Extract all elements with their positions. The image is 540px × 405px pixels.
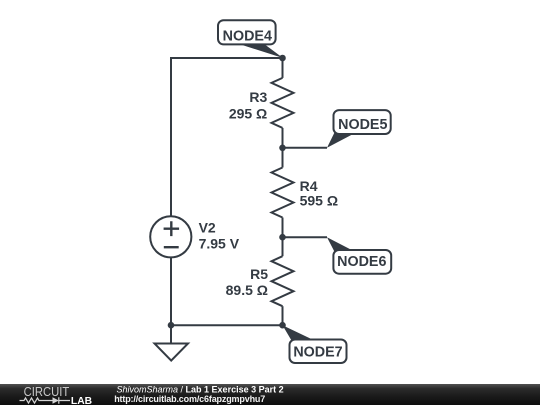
svg-text:NODE7: NODE7: [293, 344, 342, 360]
node NODE5 callout tail: [327, 133, 356, 148]
svg-text:295 Ω: 295 Ω: [229, 105, 267, 121]
voltage source V2 circle: [150, 216, 191, 257]
node NODE7 callout tail: [283, 325, 315, 340]
svg-text:595 Ω: 595 Ω: [300, 193, 338, 209]
wire node5 to R4: [282, 148, 284, 168]
wire R4 to node6: [282, 218, 284, 238]
junction node5 dot: [279, 145, 286, 152]
junction node7 dot: [279, 322, 286, 329]
ground symbol: [155, 344, 189, 361]
logo diode: [53, 397, 59, 404]
wire R3 to node5: [282, 128, 284, 148]
wire R5 to bottom: [282, 306, 284, 325]
svg-text:LAB: LAB: [71, 396, 92, 405]
junction node4 dot: [279, 55, 286, 62]
wire left vertical upper: [170, 57, 172, 216]
node NODE6 callout box: [333, 250, 391, 274]
wire bottom horizontal: [171, 324, 283, 326]
footer bar: [0, 384, 540, 405]
svg-text:NODE4: NODE4: [223, 29, 272, 45]
node NODE7 callout box: [290, 340, 347, 364]
wire node5 stub: [283, 147, 328, 149]
svg-text:http://circuitlab.com/c6fapzgm: http://circuitlab.com/c6fapzgmpvhu7: [114, 394, 265, 404]
wire node6 to R5: [282, 237, 284, 256]
wire left vertical lower: [170, 257, 172, 325]
wire right top segment: [282, 58, 284, 78]
logo squiggle wire: [20, 398, 50, 403]
svg-text:89.5 Ω: 89.5 Ω: [226, 282, 268, 298]
node NODE4 callout box: [218, 20, 276, 44]
wire top horizontal: [171, 57, 283, 59]
svg-text:R5: R5: [250, 266, 268, 282]
svg-text:R4: R4: [300, 178, 318, 194]
svg-text:NODE6: NODE6: [337, 254, 386, 270]
voltage source minus sign: [164, 246, 179, 248]
resistor R5: [272, 256, 294, 306]
wire node6 stub: [283, 236, 328, 238]
voltage source plus sign: [164, 221, 180, 236]
svg-text:7.95 V: 7.95 V: [199, 235, 240, 251]
logo diode bar and wire: [49, 397, 70, 404]
svg-text:R3: R3: [249, 89, 267, 105]
junction node6 dot: [279, 234, 286, 241]
svg-text:V2: V2: [199, 220, 216, 236]
svg-text:NODE5: NODE5: [338, 117, 387, 133]
resistor R3: [272, 78, 294, 128]
svg-text:CIRCUIT: CIRCUIT: [24, 384, 70, 399]
resistor R4: [272, 168, 294, 218]
node NODE5 callout box: [334, 110, 391, 134]
junction ground dot: [168, 322, 175, 329]
node NODE6 callout tail: [327, 237, 357, 253]
node NODE4 callout tail: [238, 44, 284, 59]
ground wire stub: [170, 325, 172, 343]
